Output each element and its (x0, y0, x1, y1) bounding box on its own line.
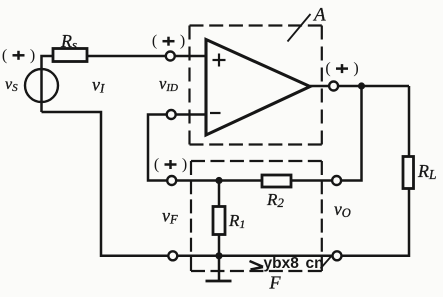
svg-text:ybx8: ybx8 (264, 255, 300, 272)
pointer slash to A (288, 14, 311, 42)
label (+) above feedback left terminal (154, 156, 187, 173)
wire op-amp output to corner (310, 85, 329, 88)
wire R1 bottom to bottom rail (218, 235, 221, 256)
wire RL bottom to bottom rail (341, 189, 409, 256)
label (+) above input terminal (152, 33, 185, 50)
bottom rail left terminal (168, 251, 177, 260)
node R1 R2 junction (215, 177, 222, 184)
svg-text:cn: cn (306, 255, 324, 272)
resistor R1 (213, 207, 225, 235)
wire bottom rail middle (219, 255, 333, 258)
wire top from source corner to Rs (42, 56, 54, 112)
wire right branch down to RL (408, 86, 411, 157)
svg-text:A: A (312, 5, 326, 26)
feedback left terminal (167, 176, 176, 185)
input terminal + (166, 52, 175, 61)
bottom rail right terminal (333, 251, 342, 260)
resistor R2 (262, 175, 291, 187)
label (+) at source (2, 47, 35, 64)
source vS (25, 69, 58, 102)
node ground junction (215, 252, 222, 259)
inverting input terminal (167, 110, 176, 119)
op-amp triangle (206, 40, 310, 136)
ground (218, 256, 221, 281)
wire R2 to feedback right terminal (291, 179, 332, 182)
resistor RL (403, 157, 414, 189)
resistor Rs (53, 49, 87, 62)
wire Rs to input terminal (87, 55, 165, 58)
wire input terminal to op-amp + input (174, 55, 206, 58)
label (+) above output terminal (325, 60, 358, 77)
feedback right terminal (332, 176, 341, 185)
amplifier block A dashed box (190, 26, 322, 145)
wire feedback left terminal to R2 (176, 179, 262, 182)
wire inverting terminal down to feedback terminal (148, 115, 167, 181)
svg-text:F: F (269, 273, 282, 293)
wire output junction down to feedback right terminal (341, 86, 362, 181)
op-amp plus marker (213, 59, 226, 61)
wire bottom rail back to source (42, 112, 169, 256)
wire inverting terminal to op-amp (176, 113, 206, 116)
pointer chevron to F (250, 261, 264, 267)
feedback network F dashed box (191, 161, 322, 271)
output terminal (329, 82, 338, 91)
wire bottom rail to left terminal (177, 255, 219, 258)
watermark slash through n (321, 257, 332, 269)
wire R1 stem (218, 181, 221, 207)
op-amp minus marker (210, 112, 221, 114)
node output junction (358, 82, 365, 89)
